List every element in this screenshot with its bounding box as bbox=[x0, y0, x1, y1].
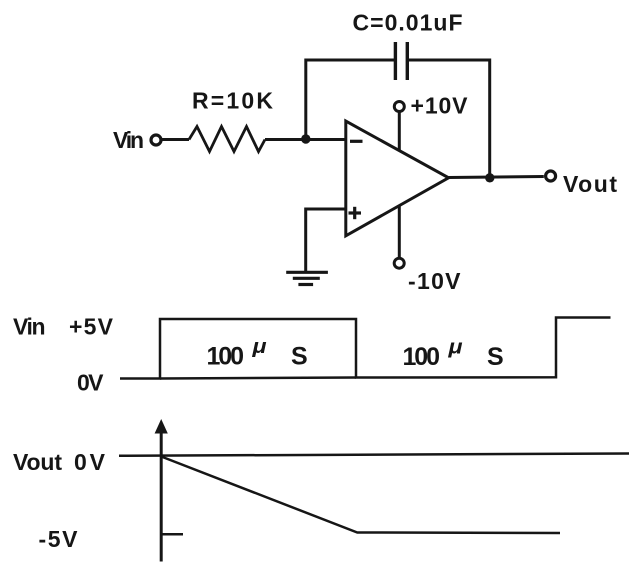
wire op-amp output bbox=[449, 177, 544, 178]
svg-text:Vout: Vout bbox=[563, 171, 617, 197]
output terminal Vout bbox=[546, 171, 556, 181]
svg-text:μ: μ bbox=[251, 336, 266, 358]
Vin pulse bottom edge (under first pulse) bbox=[160, 378, 356, 379]
wire node A up to capacitor bbox=[306, 60, 396, 139]
Vout axis vertical with arrow bbox=[160, 430, 163, 562]
wire resistor to inverting input bbox=[265, 138, 346, 141]
input terminal Vin bbox=[151, 135, 161, 145]
wire +10V supply bbox=[398, 112, 401, 151]
node B output junction dot bbox=[485, 173, 494, 182]
svg-text:+5V: +5V bbox=[69, 314, 114, 340]
Vout ramp trace bbox=[161, 457, 560, 534]
node A junction dot bbox=[301, 134, 310, 143]
svg-text:0V: 0V bbox=[77, 370, 104, 396]
svg-text:0V: 0V bbox=[74, 449, 106, 475]
terminal -10V bbox=[394, 258, 404, 268]
svg-text:Vin: Vin bbox=[113, 127, 144, 153]
svg-text:S: S bbox=[291, 342, 308, 370]
Vout axis arrowhead bbox=[155, 419, 168, 434]
wire noninverting input to ground bbox=[306, 209, 346, 271]
svg-text:-5V: -5V bbox=[39, 526, 79, 552]
-5V tick bbox=[161, 533, 183, 536]
svg-text:100: 100 bbox=[207, 342, 245, 370]
svg-text:+10V: +10V bbox=[411, 93, 469, 119]
svg-text:100: 100 bbox=[403, 343, 441, 371]
svg-text:C=0.01uF: C=0.01uF bbox=[353, 10, 463, 36]
wire Vin terminal to resistor bbox=[162, 138, 189, 141]
plus sign at noninverting input bbox=[349, 211, 362, 214]
op-amp U1 bbox=[346, 121, 449, 236]
svg-text:Vout: Vout bbox=[13, 449, 62, 475]
ground bbox=[286, 271, 328, 274]
Vin waveform trace bbox=[120, 318, 611, 379]
wire -10V supply bbox=[398, 206, 401, 258]
capacitor C plates bbox=[394, 42, 397, 80]
svg-text:R=10K: R=10K bbox=[192, 88, 273, 114]
wire capacitor to output node bbox=[407, 60, 489, 178]
terminal +10V bbox=[394, 102, 404, 112]
Vout 0V line bbox=[119, 454, 629, 456]
svg-text:μ: μ bbox=[447, 337, 462, 359]
resistor R1 bbox=[189, 127, 265, 152]
svg-text:S: S bbox=[487, 343, 504, 371]
minus sign at inverting input bbox=[350, 140, 363, 143]
svg-text:Vin: Vin bbox=[13, 314, 46, 340]
